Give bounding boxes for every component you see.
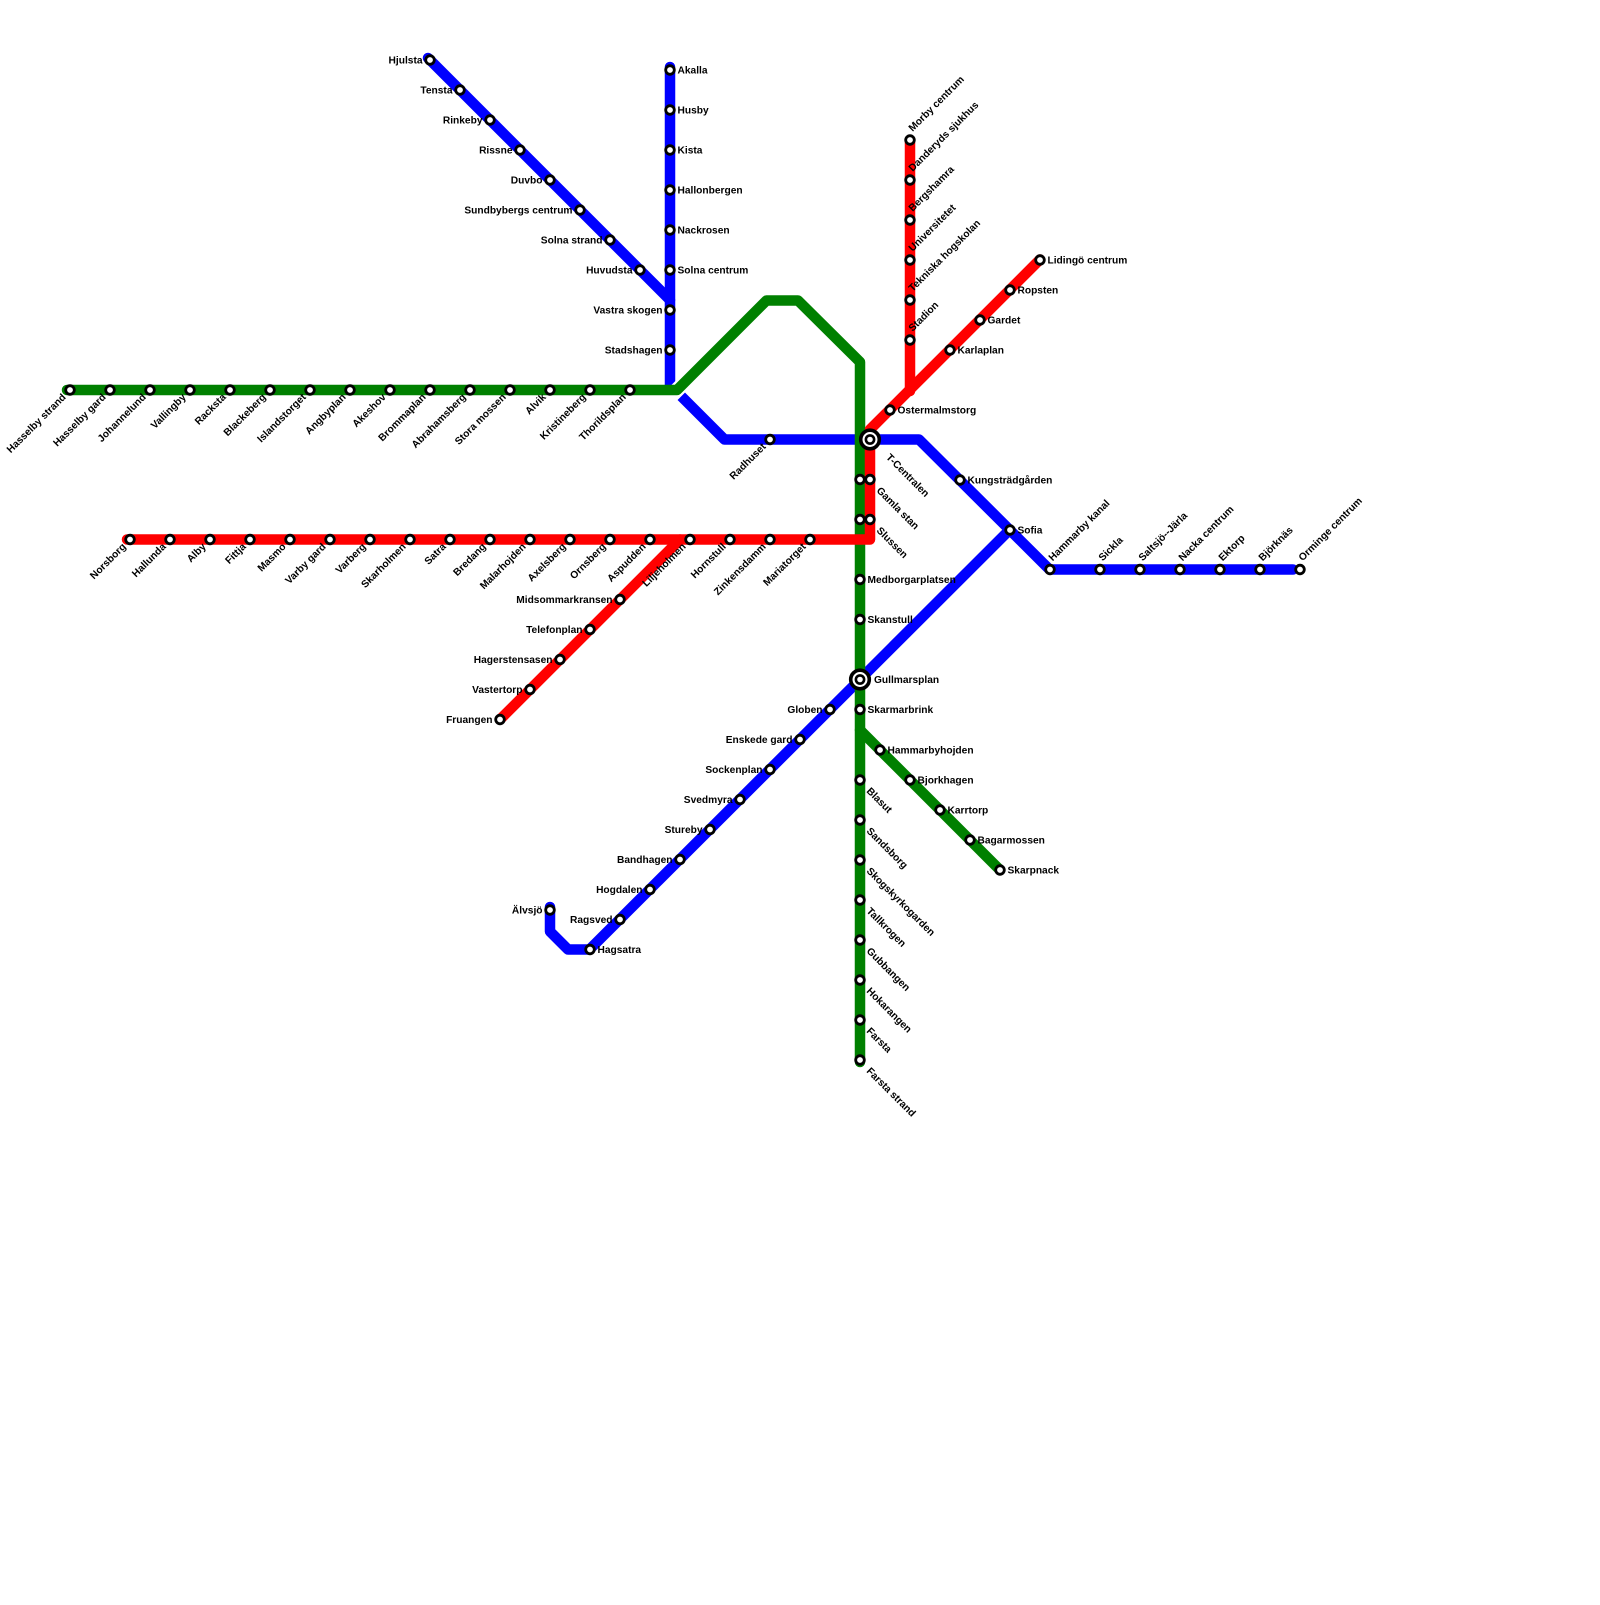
station Akalla	[666, 66, 675, 75]
line: green Skarpnack branch	[860, 730, 1000, 870]
svg-text:Skanstull: Skanstull	[868, 615, 913, 626]
svg-text:Fruangen: Fruangen	[446, 715, 492, 726]
station Fruangen	[496, 715, 505, 724]
station Brommaplan	[426, 386, 435, 395]
station Hasselby gard	[106, 386, 115, 395]
station Telefonplan	[586, 625, 595, 634]
svg-text:Skarmarbrink: Skarmarbrink	[868, 705, 934, 716]
station Masmo	[286, 535, 295, 544]
svg-text:Gullmarsplan: Gullmarsplan	[874, 675, 939, 686]
station Hogdalen	[646, 885, 655, 894]
station Stureby	[706, 825, 715, 834]
svg-text:Älvsjö: Älvsjö	[512, 904, 543, 917]
station Kista	[666, 146, 675, 155]
station Karlaplan	[946, 346, 955, 355]
station Nacka centrum	[1176, 565, 1185, 574]
station Kristineberg	[586, 386, 595, 395]
station Rissne	[516, 146, 525, 155]
station Bredang	[486, 535, 495, 544]
svg-text:Hjulsta: Hjulsta	[389, 56, 423, 67]
station Farsta strand	[856, 1056, 865, 1065]
station Vastertorp	[526, 685, 535, 694]
station Saltsjö--Järla	[1136, 565, 1145, 574]
station Islandstorget	[306, 386, 315, 395]
station Hammarbyhojden	[876, 746, 885, 755]
station Fittja	[246, 535, 255, 544]
station Enskede gard	[796, 735, 805, 744]
station Satra	[446, 535, 455, 544]
station Hjulsta	[426, 56, 435, 65]
station Skogskyrkogarden	[856, 856, 865, 865]
svg-text:Hammarbyhojden: Hammarbyhojden	[888, 746, 974, 757]
station Alvik	[546, 386, 555, 395]
station Hagerstensasen	[556, 655, 565, 664]
station Aspudden	[646, 535, 655, 544]
svg-text:Rinkeby: Rinkeby	[443, 116, 483, 127]
station Bagarmossen	[966, 836, 975, 845]
station Danderyds sjukhus	[906, 176, 915, 185]
station Skarpnack	[996, 866, 1005, 875]
station Racksta	[226, 386, 235, 395]
station Hokarangen	[856, 976, 865, 985]
station Lidingö centrum	[1036, 256, 1045, 265]
station Sandsborg	[856, 816, 865, 825]
station Svedmyra	[736, 795, 745, 804]
station Duvbo	[546, 176, 555, 185]
station Ornsberg	[606, 535, 615, 544]
svg-text:Medborgarplatsen: Medborgarplatsen	[868, 575, 956, 586]
station Huvudsta	[636, 266, 645, 275]
station Hasselby strand	[66, 386, 75, 395]
svg-text:Tensta: Tensta	[420, 86, 452, 97]
station Radhuset	[766, 435, 775, 444]
svg-text:Ragsved: Ragsved	[570, 915, 612, 926]
station Kungsträdgården	[956, 476, 965, 485]
station Bandhagen	[676, 855, 685, 864]
svg-text:Kista: Kista	[678, 146, 703, 157]
station Gubbangen	[856, 936, 865, 945]
line: red main line	[127, 260, 1040, 540]
svg-text:Bjorkhagen: Bjorkhagen	[918, 776, 974, 787]
svg-text:Sockenplan: Sockenplan	[705, 765, 762, 776]
svg-text:Hagsatra: Hagsatra	[598, 945, 642, 956]
station Morby centrum	[906, 136, 915, 145]
svg-text:Stureby: Stureby	[665, 825, 703, 836]
station Zinkensdamm	[766, 535, 775, 544]
svg-text:Ropsten: Ropsten	[1018, 286, 1059, 297]
station Björknäs	[1256, 565, 1265, 574]
svg-text:Telefonplan: Telefonplan	[526, 625, 582, 636]
station Vallingby	[186, 386, 195, 395]
svg-text:Karlaplan: Karlaplan	[958, 346, 1004, 357]
station Rinkeby	[486, 116, 495, 125]
svg-text:Bandhagen: Bandhagen	[617, 855, 672, 866]
line: blue Hjulsta branch	[428, 58, 670, 300]
svg-text:Akalla: Akalla	[678, 66, 708, 77]
station Gardet	[976, 316, 985, 325]
svg-text:Kungsträdgården: Kungsträdgården	[968, 475, 1053, 487]
station Hornstull	[726, 535, 735, 544]
station Stadion	[906, 336, 915, 345]
station Varby gard	[326, 535, 335, 544]
svg-text:Globen: Globen	[787, 705, 822, 716]
station Tallkrogen	[856, 896, 865, 905]
station Angbyplan	[346, 386, 355, 395]
station Medborgarplatsen	[856, 575, 865, 584]
station Norsborg	[126, 535, 135, 544]
svg-text:Stadshagen: Stadshagen	[605, 346, 663, 357]
svg-text:Huvudsta: Huvudsta	[586, 266, 633, 277]
svg-text:Vastra skogen: Vastra skogen	[593, 306, 662, 317]
station Stora mossen	[506, 386, 515, 395]
station Midsommarkransen	[616, 595, 625, 604]
svg-text:Duvbo: Duvbo	[511, 176, 543, 187]
station Hallonbergen	[666, 186, 675, 195]
station Thorildsplan	[626, 386, 635, 395]
svg-text:Nackrosen: Nackrosen	[678, 226, 730, 237]
svg-text:Gardet: Gardet	[988, 316, 1021, 327]
svg-text:Hallonbergen: Hallonbergen	[678, 186, 743, 197]
line: white notch at green junction	[672, 298, 770, 396]
svg-text:Bagarmossen: Bagarmossen	[978, 836, 1045, 847]
svg-text:Enskede gard: Enskede gard	[726, 735, 793, 746]
station Mariatorget	[806, 535, 815, 544]
svg-text:Ostermalmstorg: Ostermalmstorg	[898, 406, 977, 417]
svg-text:Husby: Husby	[678, 106, 709, 117]
line: blue Akalla trunk	[670, 67, 1293, 570]
station Skarmarbrink	[856, 705, 865, 714]
station Solna strand	[606, 236, 615, 245]
svg-text:Midsommarkransen: Midsommarkransen	[516, 595, 612, 606]
line: red Morby branch	[905, 142, 916, 391]
station Hammarby kanal	[1046, 565, 1055, 574]
station Johannelund	[146, 386, 155, 395]
station Stadshagen	[666, 346, 675, 355]
interchange Gullmarsplan	[851, 670, 870, 689]
station Vastra skogen	[666, 306, 675, 315]
svg-text:Svedmyra: Svedmyra	[684, 795, 733, 806]
station Sundbybergs centrum	[576, 206, 585, 215]
svg-text:Hogdalen: Hogdalen	[596, 885, 642, 896]
station Hagsatra	[586, 945, 595, 954]
station Hallunda	[166, 535, 175, 544]
station Tekniska hogskolan	[906, 296, 915, 305]
station Skarholmen	[406, 535, 415, 544]
station Orminge centrum	[1296, 565, 1305, 574]
station Universitetet	[906, 256, 915, 265]
svg-text:Solna strand: Solna strand	[541, 236, 603, 247]
line: blue Hagsatra branch	[550, 530, 1010, 950]
station Globen	[826, 705, 835, 714]
station Blackeberg	[266, 386, 275, 395]
station Sofia	[1006, 526, 1015, 535]
svg-text:Karrtorp: Karrtorp	[948, 806, 989, 817]
station Liljeholmen	[686, 535, 695, 544]
svg-text:Vastertorp: Vastertorp	[472, 685, 522, 696]
station Sickla	[1096, 565, 1105, 574]
station Alby	[206, 535, 215, 544]
station Malarhojden	[526, 535, 535, 544]
station Nackrosen	[666, 226, 675, 235]
station Sockenplan	[766, 765, 775, 774]
line: red Fruangen branch	[500, 540, 680, 720]
svg-text:Hagerstensasen: Hagerstensasen	[474, 655, 553, 666]
station Skanstull	[856, 615, 865, 624]
station Slussen (green circle)	[856, 515, 865, 524]
station Karrtorp	[936, 806, 945, 815]
station Ropsten	[1006, 286, 1015, 295]
line: green main line	[67, 301, 860, 1063]
station Axelsberg	[566, 535, 575, 544]
station Solna centrum	[666, 266, 675, 275]
station Ragsved	[616, 915, 625, 924]
svg-text:Skarpnack: Skarpnack	[1008, 866, 1060, 877]
station Abrahamsberg	[466, 386, 475, 395]
station Akeshov	[386, 386, 395, 395]
station Varberg	[366, 535, 375, 544]
station Älvsjö	[546, 906, 555, 915]
station Gamla stan (green circle)	[856, 475, 865, 484]
station Ektorp	[1216, 565, 1225, 574]
station Tensta	[456, 86, 465, 95]
svg-text:Sofia: Sofia	[1018, 526, 1043, 537]
svg-text:Sundbybergs centrum: Sundbybergs centrum	[464, 206, 572, 217]
svg-text:Solna centrum: Solna centrum	[678, 266, 749, 277]
station Bergshamra	[906, 216, 915, 225]
station Slussen (red circle)	[866, 515, 875, 524]
station Bjorkhagen	[906, 776, 915, 785]
interchange T-Centralen	[861, 430, 880, 449]
station Gamla stan (red circle)	[866, 475, 875, 484]
station Farsta	[856, 1016, 865, 1025]
svg-text:Lidingö centrum: Lidingö centrum	[1048, 256, 1128, 267]
svg-text:Rissne: Rissne	[479, 146, 513, 157]
station Ostermalmstorg	[886, 406, 895, 415]
station Husby	[666, 106, 675, 115]
station Blasut	[856, 776, 865, 785]
